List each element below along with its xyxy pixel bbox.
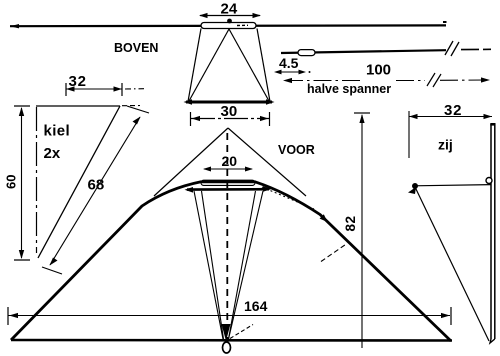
rod break marks	[445, 41, 459, 56]
tow ring	[223, 342, 231, 353]
halve spanner rod	[281, 49, 491, 53]
spreader bar (voor)	[185, 186, 272, 192]
keel top edge	[36, 105, 140, 108]
svg-text:zij: zij	[438, 137, 453, 153]
centre dashed line	[226, 133, 228, 341]
inner diagonal left	[189, 29, 229, 101]
leading edge (thick curve)	[11, 182, 451, 341]
dim 82	[343, 113, 370, 348]
bridle line right inner	[229, 191, 256, 339]
svg-text:164: 164	[244, 298, 268, 314]
sleeve (voor)	[201, 180, 255, 185]
spanner chord (dotted, right wing)	[262, 187, 314, 209]
bottom spreader bar (boven)	[184, 99, 275, 105]
bottom edge (thick)	[11, 339, 452, 342]
edge arrowhead	[320, 214, 328, 222]
keel hypotenuse	[38, 106, 120, 258]
dim 100	[283, 62, 490, 88]
inner diagonal right	[229, 29, 269, 101]
bridle line left inner	[202, 191, 224, 339]
bridle line left outer	[194, 191, 223, 339]
svg-text:halve spanner: halve spanner	[307, 82, 391, 96]
zij nose dot	[412, 183, 418, 189]
center dot	[227, 19, 232, 24]
voor left fabric edge (thin)	[154, 128, 228, 196]
spanner ferrule	[298, 50, 315, 56]
svg-text:4.5: 4.5	[279, 55, 299, 71]
keel left edge (dash-dot)	[36, 107, 38, 253]
bridle line right outer	[229, 191, 264, 339]
zij spine (double line)	[490, 123, 496, 343]
dim 164	[8, 298, 451, 325]
svg-text:100: 100	[366, 62, 391, 79]
spine rod (long horizontal, top view)	[10, 21, 447, 28]
svg-text:BOVEN: BOVEN	[114, 41, 158, 55]
svg-text:60: 60	[4, 175, 19, 189]
zij ring	[486, 178, 492, 184]
stray bridle tail	[230, 325, 253, 339]
trapezoid left side	[188, 29, 201, 102]
trapezoid right side	[257, 29, 270, 102]
dim 68	[42, 106, 149, 274]
svg-text:2x: 2x	[44, 145, 61, 162]
svg-text:30: 30	[221, 103, 238, 120]
dim 32 (zij)	[409, 102, 492, 158]
zij top line	[414, 185, 491, 186]
dim 20	[203, 153, 253, 172]
svg-text:kiel: kiel	[44, 123, 71, 140]
svg-text:82: 82	[343, 215, 358, 231]
leader dash line	[321, 244, 347, 262]
dim 32 (kiel)	[66, 73, 144, 96]
svg-text:20: 20	[222, 153, 238, 169]
zij hypotenuse	[416, 188, 490, 341]
sleeve dashes	[237, 24, 248, 26]
svg-text:VOOR: VOOR	[278, 143, 315, 157]
bridle convergence	[222, 324, 231, 341]
dim 30 (boven)	[191, 103, 270, 126]
voor right fabric edge (thin)	[228, 128, 306, 196]
dim 24	[199, 1, 261, 19]
zij nose pennant	[408, 187, 416, 194]
top sleeve (boven)	[201, 23, 256, 29]
dim 60	[4, 106, 31, 260]
dim 4.5	[274, 55, 311, 74]
